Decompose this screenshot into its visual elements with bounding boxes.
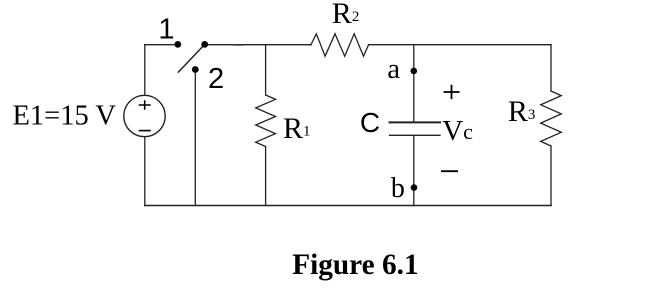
svg-text:Vc: Vc — [442, 115, 473, 147]
svg-text:E1=15 V: E1=15 V — [13, 101, 117, 132]
svg-text:2: 2 — [208, 63, 224, 95]
svg-text:Figure 6.1: Figure 6.1 — [292, 249, 418, 281]
svg-text:1: 1 — [158, 14, 174, 46]
svg-text:R2: R2 — [332, 0, 360, 30]
svg-text:R3: R3 — [508, 95, 536, 128]
svg-text:R1: R1 — [283, 112, 311, 145]
svg-text:C: C — [360, 107, 380, 138]
svg-text:a: a — [387, 53, 400, 85]
svg-text:b: b — [391, 173, 405, 204]
